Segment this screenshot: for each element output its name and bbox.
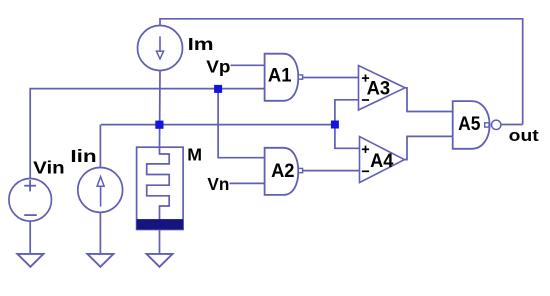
svg-text:M: M: [187, 145, 202, 165]
wire A3 minus input branch down to junction: [335, 100, 359, 125]
svg-text:out: out: [509, 126, 539, 145]
AND gate A2: [265, 148, 303, 195]
voltage source Vin: [9, 179, 52, 222]
node junction on central bus at memristor column: [155, 121, 163, 129]
wire central bus from Iin corner to A3/A4 junction: [101, 124, 336, 126]
ground (Vin): [17, 254, 43, 267]
svg-text:A3: A3: [367, 79, 391, 100]
wire A4 output to A5 lower input: [404, 136, 452, 159]
svg-text:A2: A2: [271, 161, 294, 182]
NAND gate A5: [453, 101, 501, 149]
current source Im: [138, 26, 183, 71]
ground (memristor): [147, 254, 173, 267]
wire Im bottom to memristor top: [159, 71, 162, 148]
svg-text:Iin: Iin: [70, 146, 96, 166]
wire top feedback net (A5 output up and over to Im top): [160, 19, 523, 125]
AND gate A1: [265, 54, 303, 101]
svg-text:A1: A1: [268, 65, 292, 86]
wire A5 output to feedback corner: [501, 124, 523, 126]
node junction on Vp net (A1 lower input / A2 branch): [214, 85, 222, 93]
memristor M: [137, 147, 184, 229]
wire memristor to ground: [159, 230, 161, 254]
wire Vp branch down to A2 upper input: [218, 89, 265, 158]
wire A2 output to A4 minus input: [303, 170, 360, 172]
wire Vin to ground: [29, 221, 31, 254]
wire Vin net: up from Vin, across to A1 lower input: [30, 89, 264, 179]
svg-text:Vn: Vn: [207, 174, 229, 194]
node junction at A3/A4 input branch: [331, 121, 339, 129]
wire A1 output to A3 plus input: [303, 77, 359, 79]
svg-text:Vin: Vin: [33, 158, 64, 178]
svg-text:A4: A4: [370, 151, 394, 172]
wire A4 plus input branch up to junction: [335, 125, 360, 149]
comparator A3: [359, 66, 406, 111]
svg-text:A5: A5: [458, 114, 481, 135]
wire Vn stub to A2 lower input: [230, 182, 265, 184]
wire A3 output to A5 upper input: [405, 88, 453, 112]
svg-text:Im: Im: [188, 34, 214, 54]
svg-text:Vp: Vp: [206, 57, 230, 77]
ground (Iin): [87, 254, 113, 267]
wire Iin to ground: [99, 212, 101, 254]
current source Iin: [78, 168, 123, 213]
wire Iin up to bus: [99, 125, 101, 168]
wire Vp stub to A1 upper input: [231, 64, 265, 66]
comparator A4: [360, 137, 405, 183]
